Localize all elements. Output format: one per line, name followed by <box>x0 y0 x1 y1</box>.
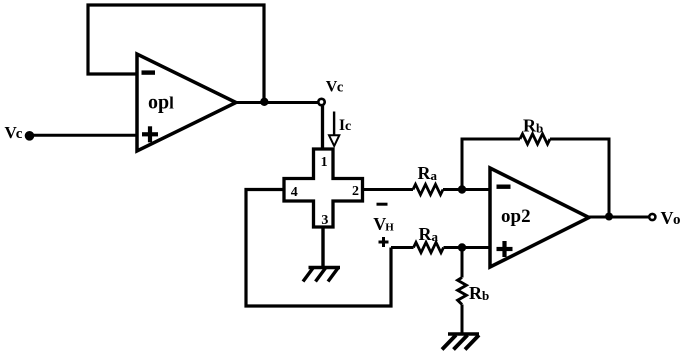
svg-text:2: 2 <box>352 184 359 199</box>
svg-text:3: 3 <box>321 213 328 228</box>
wire Rb feedback to output node <box>550 139 609 217</box>
svg-text:Ra: Ra <box>418 163 438 183</box>
svg-text:opl: opl <box>148 92 174 114</box>
svg-text:Vo: Vo <box>661 208 681 228</box>
wire Ra top to op2 minus <box>443 188 490 191</box>
junction node op1 output <box>260 98 268 106</box>
wire pin4 row to resistor Ra bottom <box>391 246 414 249</box>
junction node op2 plus <box>458 243 466 251</box>
label plus of VH <box>379 237 389 247</box>
ground (Hall pin 3) <box>303 268 340 282</box>
terminal Vo <box>649 214 655 220</box>
label minus of VH <box>377 203 388 206</box>
svg-text:Rb: Rb <box>523 116 543 136</box>
wire op1 output <box>236 101 319 104</box>
svg-text:4: 4 <box>291 185 298 200</box>
wire Hall pin 3 to ground <box>321 227 324 267</box>
resistor Ra bottom <box>414 242 444 252</box>
ground (Rb branch) <box>442 334 479 350</box>
resistor Rb ground branch <box>458 278 467 305</box>
svg-text:Ic: Ic <box>339 117 351 134</box>
wire Vc input to op1 + <box>33 134 137 137</box>
Hall element (4-terminal cross) <box>284 149 363 227</box>
svg-text:Vc: Vc <box>326 79 344 96</box>
resistor Ra top <box>413 184 443 194</box>
junction node output <box>605 213 613 221</box>
svg-text:Rb: Rb <box>469 283 489 303</box>
wire junction down to Rb ground branch <box>461 248 464 278</box>
wire Vc node to Hall pin 1 <box>321 106 324 150</box>
wire Ra bottom to op2 plus <box>444 246 491 249</box>
wire Hall pin 2 to resistor Ra top <box>363 188 414 191</box>
svg-text:Ra: Ra <box>419 224 439 244</box>
wire feedback op1 <box>88 5 264 103</box>
svg-text:Vc: Vc <box>5 123 23 142</box>
current arrow Ic <box>329 112 339 147</box>
op-amp op1 <box>137 54 236 151</box>
wire Rb to ground <box>461 305 464 335</box>
resistor Rb feedback <box>520 134 550 144</box>
svg-text:VH: VH <box>373 214 394 234</box>
wire op2 output <box>589 216 649 219</box>
wire Hall pin 4 loop to op2 + branch <box>246 190 391 307</box>
svg-text:op2: op2 <box>501 206 531 227</box>
wire junction up to Rb feedback <box>462 139 520 190</box>
svg-text:1: 1 <box>321 155 328 170</box>
junction node op2 minus <box>458 185 466 193</box>
op-amp op2 <box>490 168 589 267</box>
terminal Vc input <box>25 131 35 141</box>
terminal Vc node <box>318 99 324 105</box>
